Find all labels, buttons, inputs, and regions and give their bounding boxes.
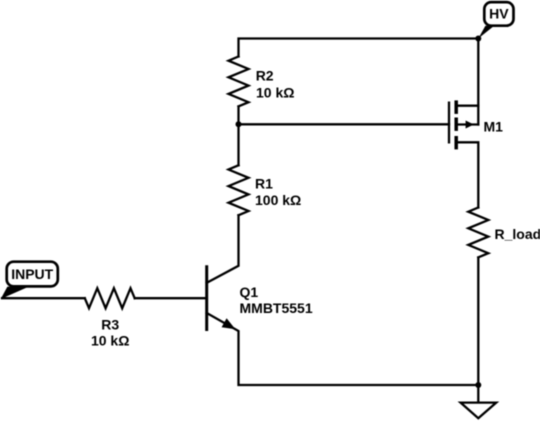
svg-text:10 kΩ: 10 kΩ	[91, 332, 129, 348]
svg-text:Q1: Q1	[240, 284, 259, 300]
svg-text:10 kΩ: 10 kΩ	[256, 84, 294, 100]
svg-text:R1: R1	[255, 176, 273, 192]
svg-text:INPUT: INPUT	[11, 266, 53, 282]
svg-text:M1: M1	[484, 119, 504, 135]
svg-text:100 kΩ: 100 kΩ	[255, 192, 301, 208]
svg-text:MMBT5551: MMBT5551	[240, 300, 313, 316]
svg-text:R_load: R_load	[495, 226, 540, 242]
svg-text:R2: R2	[256, 68, 274, 84]
svg-text:HV: HV	[489, 5, 509, 21]
svg-text:R3: R3	[101, 317, 119, 333]
